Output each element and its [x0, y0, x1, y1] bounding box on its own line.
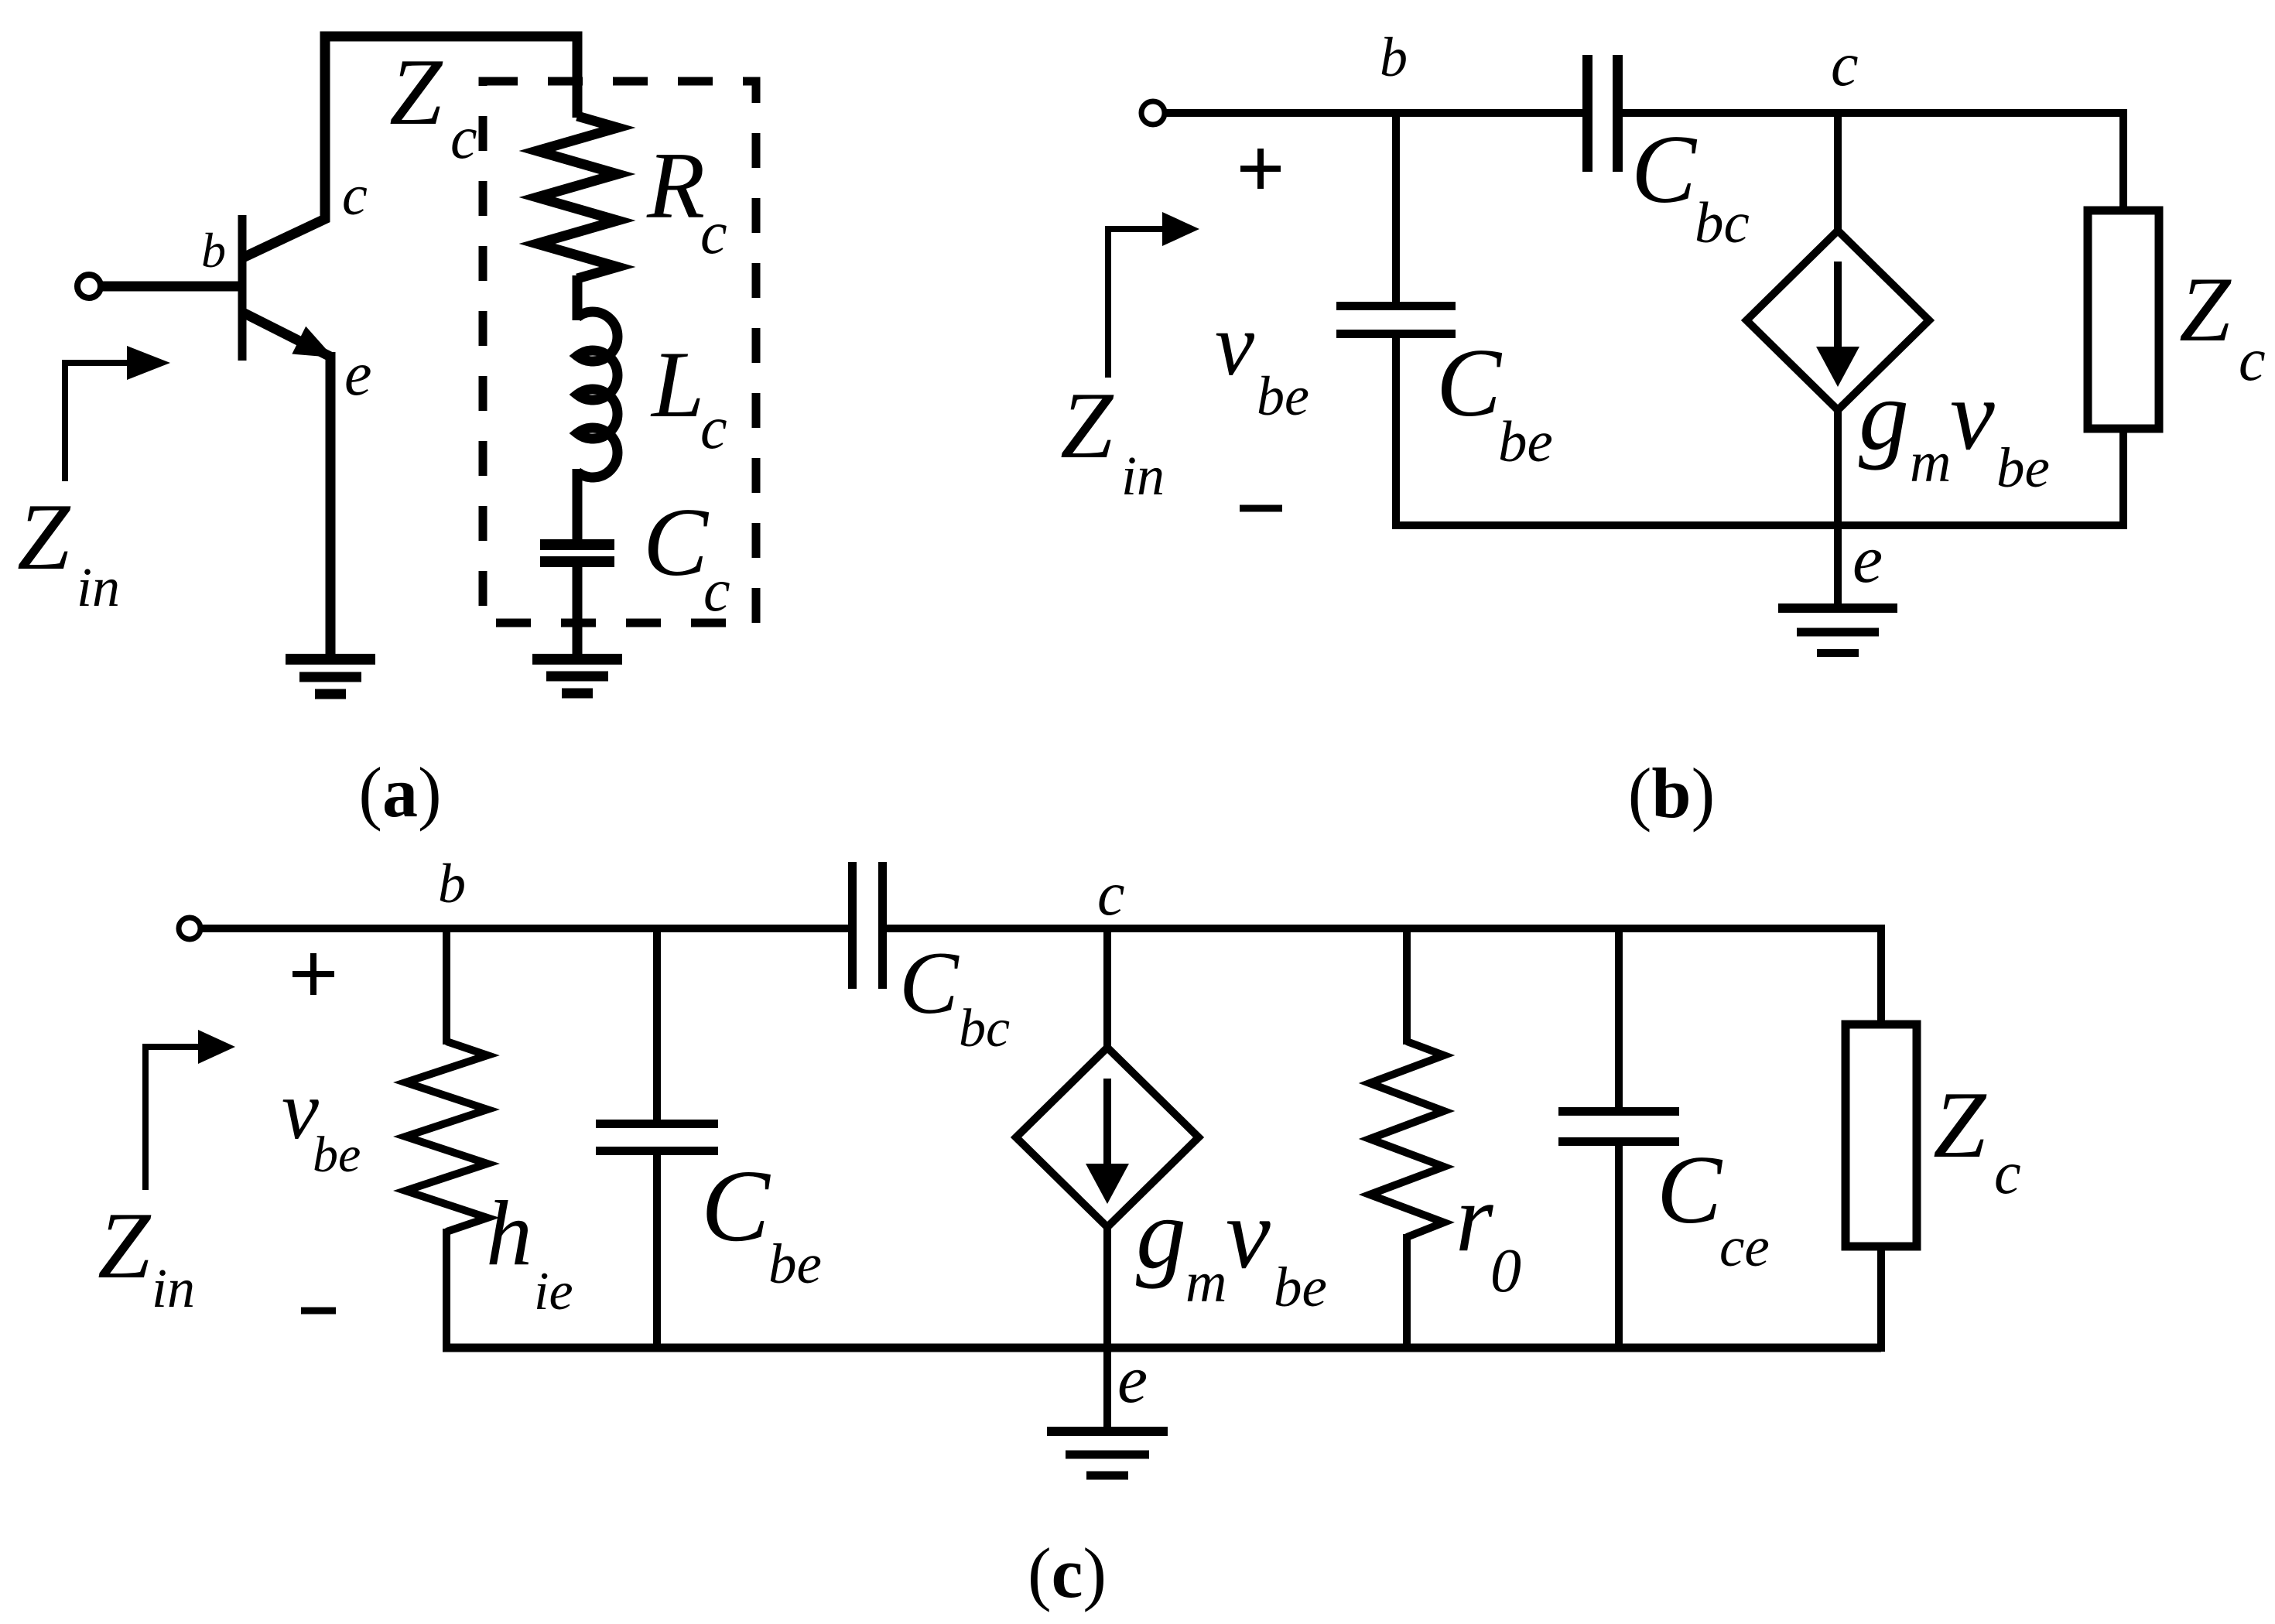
- svg-text:ie: ie: [534, 1262, 573, 1321]
- label Zc (a): [389, 39, 477, 171]
- bottom rail (c): [443, 1344, 1881, 1352]
- input terminal (c): [179, 918, 200, 939]
- label gm vbe (c): [1136, 1178, 1327, 1318]
- capacitor Cbc (b): [1582, 55, 1623, 172]
- label Zin (a): [17, 484, 120, 618]
- capacitor Cce (c): [1558, 1107, 1679, 1146]
- label r0: [1456, 1165, 1521, 1305]
- svg-text:R: R: [646, 132, 705, 238]
- svg-text:m: m: [1910, 431, 1951, 494]
- ground (emitter, a): [286, 659, 375, 694]
- wire Zc to bottom rail (b): [2119, 429, 2127, 529]
- node b label (c): [438, 853, 466, 915]
- input terminal (b): [1141, 101, 1165, 125]
- svg-text:Z: Z: [2179, 258, 2232, 361]
- svg-text:c: c: [1831, 31, 1859, 99]
- ground (Zc branch, a): [532, 659, 622, 693]
- svg-text:r: r: [1456, 1165, 1494, 1272]
- svg-text:g: g: [1859, 360, 1909, 471]
- svg-text:C: C: [1436, 330, 1503, 437]
- caption (a): [358, 753, 441, 832]
- svg-text:(a): (a): [358, 753, 441, 832]
- plus sign (c): [292, 953, 334, 995]
- svg-text:h: h: [486, 1181, 532, 1284]
- bottom rail (b): [1392, 521, 2123, 529]
- svg-text:Z: Z: [1933, 1072, 1987, 1178]
- svg-text:Z: Z: [97, 1192, 152, 1298]
- svg-text:bc: bc: [1695, 191, 1750, 255]
- svg-text:m: m: [1185, 1251, 1226, 1315]
- label vbe (c): [282, 1065, 361, 1183]
- wire hie to bottom rail (c): [443, 1229, 450, 1352]
- svg-text:Z: Z: [389, 39, 443, 145]
- svg-text:b: b: [438, 853, 466, 915]
- wire base input (a): [101, 282, 239, 292]
- label Zc (b): [2179, 258, 2266, 393]
- node c wire down to source (b): [1834, 109, 1842, 234]
- label gm vbe (b): [1859, 360, 2050, 499]
- node b label (b): [1380, 26, 1408, 88]
- svg-text:L: L: [650, 331, 704, 437]
- node c label (b): [1831, 31, 1859, 99]
- caption (c): [1028, 1533, 1107, 1612]
- label Cbc (b): [1631, 116, 1750, 255]
- svg-text:be: be: [313, 1127, 361, 1183]
- wire Cc to ground: [573, 567, 583, 659]
- caption (b): [1628, 754, 1715, 833]
- svg-text:c: c: [450, 104, 477, 171]
- capacitor Cbe (b): [1336, 302, 1456, 338]
- resistor r0 branch wire lower (c): [1403, 1234, 1411, 1352]
- Zin arrow (a): [65, 346, 170, 481]
- svg-text:C: C: [643, 489, 710, 597]
- wire top right (b) : Cbc to Zc branch: [1618, 109, 2123, 117]
- svg-text:e: e: [1852, 522, 1883, 597]
- capacitor Cbe branch wire lower (c): [653, 1154, 661, 1352]
- node c wire down to source (c): [1103, 925, 1111, 1051]
- svg-text:C: C: [1631, 116, 1698, 224]
- transistor Q1 emitter lead with arrow: [243, 313, 340, 371]
- wire top left (b) : terminal to Cbc: [1165, 109, 1587, 117]
- transistor Q1 base bar: [238, 215, 247, 361]
- svg-text:v: v: [1215, 296, 1255, 394]
- svg-text:be: be: [1498, 410, 1553, 474]
- resistor Rc: [537, 116, 617, 279]
- ground (b): [1778, 608, 1897, 653]
- label hie: [486, 1181, 573, 1321]
- svg-text:in: in: [77, 556, 120, 618]
- wire Lc to Cc: [573, 469, 583, 541]
- label Cbe (b): [1436, 330, 1553, 474]
- svg-text:e: e: [344, 340, 372, 409]
- node b wire down (b): [1392, 109, 1400, 303]
- label Zin (b): [1060, 372, 1165, 507]
- label Zc (c): [1933, 1072, 2021, 1206]
- wire to Zc (b): [2119, 109, 2127, 213]
- svg-text:in: in: [1121, 445, 1165, 507]
- svg-text:be: be: [1274, 1256, 1327, 1318]
- wire to Zc (c): [1877, 925, 1885, 1027]
- svg-text:bc: bc: [959, 999, 1010, 1058]
- wire top left (c) : terminal to Cbc: [200, 925, 850, 932]
- wire source through bottom rail to ground (c): [1103, 1224, 1111, 1431]
- Zin arrow (c): [145, 1030, 235, 1190]
- node c label (c): [1097, 860, 1125, 928]
- plus sign (b): [1240, 149, 1281, 189]
- svg-text:c: c: [342, 164, 368, 227]
- wire source to bottom rail and ground (b): [1834, 407, 1842, 608]
- resistor r0: [1370, 1041, 1444, 1237]
- capacitor Cbc (c): [848, 862, 887, 989]
- inductor Lc: [577, 312, 617, 477]
- svg-text:c: c: [703, 556, 730, 624]
- svg-text:in: in: [152, 1257, 195, 1319]
- svg-text:C: C: [701, 1148, 771, 1263]
- wire Cbe to bottom rail (b): [1392, 337, 1400, 529]
- svg-text:Z: Z: [17, 484, 71, 590]
- minus sign (b): [1240, 505, 1282, 512]
- node e label (b): [1852, 522, 1883, 597]
- svg-text:c: c: [700, 199, 727, 266]
- label Cbe (c): [701, 1148, 822, 1295]
- capacitor Cbe branch wire upper (c): [653, 925, 661, 1121]
- svg-text:v: v: [1226, 1178, 1271, 1290]
- dependent current source gm*vbe (b): [1746, 231, 1929, 410]
- svg-text:c: c: [1994, 1139, 2021, 1206]
- impedance Zc box (c): [1846, 1024, 1917, 1246]
- resistor hie: [405, 1041, 487, 1232]
- capacitor Cbe (c): [596, 1120, 718, 1155]
- svg-text:b: b: [201, 223, 226, 278]
- node e label (c): [1117, 1342, 1148, 1417]
- wire Zc to bottom rail (c): [1877, 1246, 1885, 1352]
- svg-text:c: c: [1097, 860, 1125, 928]
- node b label (a): [201, 223, 226, 278]
- svg-text:v: v: [1950, 360, 1995, 471]
- label vbe (b): [1215, 296, 1309, 427]
- label Cce: [1657, 1137, 1770, 1278]
- svg-text:be: be: [1257, 365, 1309, 427]
- svg-text:be: be: [768, 1233, 822, 1295]
- capacitor Cce branch wire upper (c): [1615, 925, 1623, 1109]
- transistor Q1 collector lead + wire to Zc branch: [243, 36, 577, 258]
- node b wire down (c): [443, 925, 450, 1044]
- svg-text:be: be: [1996, 436, 2050, 499]
- node c label (a): [342, 164, 368, 227]
- svg-text:C: C: [899, 934, 960, 1032]
- svg-text:C: C: [1657, 1137, 1723, 1244]
- svg-text:ce: ce: [1719, 1215, 1770, 1278]
- label Zin (c): [97, 1192, 195, 1319]
- impedance Zc box (b): [2088, 210, 2159, 429]
- svg-text:(b): (b): [1628, 754, 1715, 833]
- minus sign (c): [301, 1308, 336, 1315]
- svg-text:b: b: [1380, 26, 1408, 88]
- dashed box Zc network: [483, 81, 756, 623]
- label Cbc (c): [899, 934, 1010, 1058]
- wire top right (c) : Cbc to Zc branch: [885, 925, 1881, 932]
- input terminal (a): [77, 275, 101, 298]
- label Rc: [646, 132, 727, 266]
- node e label (a): [344, 340, 372, 409]
- ground (c): [1047, 1431, 1168, 1475]
- svg-text:e: e: [1117, 1342, 1148, 1417]
- wire Rc to Lc: [573, 275, 583, 320]
- svg-text:c: c: [2239, 326, 2266, 393]
- capacitor Cce branch wire lower (c): [1615, 1145, 1623, 1352]
- label Cc: [643, 489, 730, 624]
- svg-text:g: g: [1136, 1178, 1186, 1290]
- svg-text:0: 0: [1490, 1237, 1521, 1305]
- svg-text:(c): (c): [1028, 1533, 1107, 1612]
- svg-text:c: c: [700, 394, 727, 461]
- svg-text:Z: Z: [1060, 372, 1114, 478]
- resistor r0 branch wire upper (c): [1403, 925, 1411, 1044]
- capacitor Cc: [540, 539, 614, 567]
- Zin arrow (b): [1108, 212, 1199, 378]
- wire emitter to ground: [326, 352, 336, 659]
- dependent current source gm*vbe (c): [1016, 1048, 1199, 1227]
- label Lc: [650, 331, 727, 461]
